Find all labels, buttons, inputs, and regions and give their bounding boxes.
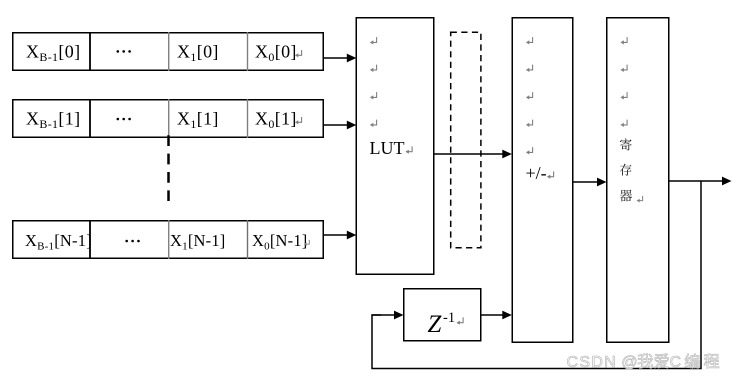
watermark char xyxy=(685,354,699,369)
register blank-line return mark xyxy=(620,65,627,72)
shift-register row 3: X[N-1] word xyxy=(13,221,324,259)
adder blank-line return mark xyxy=(526,147,533,154)
watermark char xyxy=(638,354,653,369)
feedback arrow into Z-1 xyxy=(372,314,396,316)
wire LUT to adder xyxy=(434,153,504,155)
Z^-1 return mark xyxy=(456,317,463,324)
svg-text:-1: -1 xyxy=(443,310,455,326)
shift-register row 2: X[1] word xyxy=(13,100,324,138)
register char qi xyxy=(620,190,632,202)
svg-text:C: C xyxy=(670,354,682,371)
adder label return mark xyxy=(547,171,554,178)
svg-text:Z: Z xyxy=(428,311,443,338)
row 1 cell divider 3 xyxy=(247,32,249,71)
LUT blank-line return mark xyxy=(370,65,377,72)
watermark char xyxy=(704,354,719,369)
LUT label return mark xyxy=(405,146,412,153)
LUT block xyxy=(356,18,434,275)
register label return mark xyxy=(637,196,643,203)
shift-register row 1: X[0] word xyxy=(13,33,324,71)
row 3 cell divider 1 xyxy=(89,220,91,259)
row 3 ellipsis xyxy=(125,240,128,243)
svg-text:X0[1]: X0[1] xyxy=(255,109,297,132)
wire adder to register xyxy=(573,181,599,183)
svg-text:X0[0]: X0[0] xyxy=(255,42,297,65)
row 2 return mark xyxy=(295,117,302,124)
row 3 return mark xyxy=(304,240,309,246)
adder blank-line return mark xyxy=(526,65,533,72)
row 1 ellipsis xyxy=(117,50,120,53)
row 3 cell divider 3 xyxy=(247,220,249,259)
svg-text:XB-1[N-1]: XB-1[N-1] xyxy=(25,231,92,253)
svg-text:X1[N-1]: X1[N-1] xyxy=(170,231,225,253)
register blank-line return mark xyxy=(620,37,627,44)
LUT blank-line return mark xyxy=(370,120,377,127)
svg-text:@: @ xyxy=(621,354,637,371)
wire row3 to LUT xyxy=(323,234,348,236)
adder/subtractor block +/- xyxy=(512,18,573,343)
vertical ellipsis dashed line xyxy=(167,135,170,201)
row 2 cell divider 1 xyxy=(89,99,91,138)
row 1 cell divider 1 xyxy=(89,32,91,71)
row 3 cell divider 2 xyxy=(168,220,170,259)
svg-text:X1[0]: X1[0] xyxy=(177,42,219,65)
row 1 cell divider 2 xyxy=(168,32,170,71)
dashed pipeline rectangle xyxy=(451,32,481,248)
register char cun xyxy=(620,164,632,176)
row 1 return mark xyxy=(295,50,302,57)
wire Z-1 to adder xyxy=(481,314,504,316)
register char ji xyxy=(620,138,632,150)
output wire from register xyxy=(669,180,724,182)
register blank-line return mark xyxy=(620,92,627,99)
row 2 cell divider 2 xyxy=(168,99,170,138)
svg-text:X0[N-1]: X0[N-1] xyxy=(252,231,307,253)
register block (ji-cun-qi) xyxy=(607,18,669,343)
svg-text:+/-: +/- xyxy=(526,163,547,183)
adder blank-line return mark xyxy=(526,37,533,44)
LUT blank-line return mark xyxy=(370,37,377,44)
adder blank-line return mark xyxy=(526,92,533,99)
wire row2 to LUT xyxy=(323,124,348,126)
LUT blank-line return mark xyxy=(370,92,377,99)
wire row1 to LUT xyxy=(323,57,348,59)
svg-text:LUT: LUT xyxy=(370,138,405,158)
register blank-line return mark xyxy=(620,120,627,127)
feedback wire down-left-up xyxy=(372,181,701,369)
row 2 ellipsis xyxy=(117,118,120,121)
svg-text:CSDN: CSDN xyxy=(567,354,618,371)
row 2 cell divider 3 xyxy=(247,99,249,138)
adder blank-line return mark xyxy=(526,120,533,127)
svg-text:X1[1]: X1[1] xyxy=(177,109,219,132)
delay block Z^-1 xyxy=(404,289,481,341)
watermark char xyxy=(654,354,668,369)
